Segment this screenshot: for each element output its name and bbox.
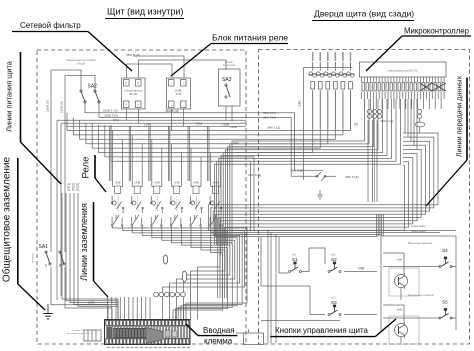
wire: S3 loop (261, 237, 377, 315)
svg-text:Переключатель сетевой: Переключатель сетевой (66, 58, 96, 62)
svg-text:+24В: +24В (230, 125, 237, 129)
indicator driver column element 5 (338, 52, 347, 129)
label: S4 caption (408, 242, 433, 245)
callout: power supply lines (left) (5, 52, 62, 184)
label: S5 caption (408, 294, 435, 297)
svg-text:Микроконтроллер: Микроконтроллер (404, 27, 470, 36)
label: net names mid bus (126, 53, 237, 129)
button S5 (439, 300, 452, 320)
choke L2 (182, 271, 186, 282)
label PE (door) (354, 123, 358, 127)
relay K1 (111, 181, 124, 227)
relay K4 (170, 181, 183, 227)
svg-text:Щит (вид изнутри): Щит (вид изнутри) (107, 7, 183, 17)
ground symbol (cabinet earth) (44, 304, 53, 319)
svg-text:ЗВН Б (Д): ЗВН Б (Д) (165, 109, 179, 113)
label -24V (buttons) (357, 267, 365, 271)
svg-text:РЕ: РЕ (354, 123, 358, 127)
wire: Kn4 links (383, 253, 404, 300)
callout: common earth (left) (1, 156, 46, 310)
svg-text:-24В: -24В (357, 267, 365, 271)
wire: relay output staircase (113, 226, 247, 320)
svg-text:Общещитовое заземление: Общещитовое заземление (1, 156, 13, 282)
svg-text:Сетевой фильтр: Сетевой фильтр (20, 21, 81, 30)
svg-text:Линии питания щита: Линии питания щита (5, 60, 14, 132)
svg-text:ЗВН 5 (Д): ЗВН 5 (Д) (248, 173, 261, 177)
wire: ground lines from relays to terminal (62, 193, 118, 320)
svg-text:S2: S2 (331, 257, 337, 262)
svg-text:(РЕ1): (РЕ1) (67, 183, 71, 191)
svg-text:для подключения сети: для подключения сети (67, 333, 91, 335)
relay K5 (190, 181, 203, 227)
svg-text:+24В: +24В (173, 181, 179, 185)
relay K3 (151, 181, 164, 227)
label -24V (298, 101, 302, 108)
wire: PSU leads (133, 56, 184, 78)
label: SA1 caption (32, 253, 35, 263)
wire: microcontroller data lines to cabinet (214, 99, 417, 245)
svg-text:S1: S1 (292, 257, 298, 262)
label (PE) near terminal (88, 301, 94, 305)
svg-text:SA2: SA2 (88, 84, 98, 90)
button S3 (328, 296, 341, 316)
terminal block X1 (105, 320, 191, 348)
wire: terminal block feeders (108, 297, 151, 320)
label: gap crossing nets (233, 111, 393, 177)
svg-text:Линии заземления: Линии заземления (79, 203, 89, 281)
indicator driver column element 6 (346, 52, 355, 129)
ferrite beads on data lines (367, 109, 425, 202)
svg-text:Кн4: Кн4 (397, 258, 402, 262)
label: door wires (411, 225, 426, 233)
svg-text:Вводная: Вводная (203, 326, 235, 335)
relay K6 (209, 181, 222, 227)
svg-text:ЗВН 4 (Д): ЗВН 4 (Д) (380, 119, 393, 123)
label: mains switch caption (66, 58, 96, 66)
svg-text:+24В: +24В (193, 181, 199, 185)
svg-text:ЗВН 1 (Д): ЗВН 1 (Д) (267, 125, 280, 129)
svg-text:ЗВН 5 (Д): ЗВН 5 (Д) (290, 169, 303, 173)
wire: filter top leads (127, 60, 227, 78)
panel border: door (right dashed box) (259, 50, 470, 345)
wire: button circuit lines from cabinet to door (268, 231, 276, 344)
svg-text:Дверца щита (вид сзади): Дверца щита (вид сзади) (314, 9, 414, 19)
wire: door bus to buttons box (377, 214, 384, 236)
svg-text:Кнопки управления щита: Кнопки управления щита (275, 326, 369, 335)
wire: -24V rail of resistor column (304, 62, 353, 180)
indicator driver column element 4 (331, 52, 340, 129)
callout: data lines (right) (426, 76, 467, 206)
node: PE labels (67, 183, 80, 191)
PE sub-terminal (84, 330, 101, 341)
wire: filter/PSU bottom leads (127, 106, 233, 131)
svg-text:(РЕ): (РЕ) (113, 118, 119, 122)
svg-text:(РЕ2): (РЕ2) (71, 183, 75, 191)
svg-text:+24В: +24В (222, 122, 229, 126)
relay power supply unit (167, 78, 191, 109)
svg-text:+24В: +24В (115, 181, 121, 185)
title: cabinet inside view (105, 7, 184, 19)
label: SA3 caption (223, 61, 236, 67)
indicator driver column element 2 (316, 52, 325, 129)
transistor Kn4 (389, 258, 419, 297)
wire: mains L feeder (51, 70, 81, 90)
svg-text:Кн1: Кн1 (292, 253, 297, 257)
callout: relays (81, 155, 107, 192)
panel border: cabinet (left dashed box) (37, 50, 246, 344)
switch SA1 (45, 251, 65, 267)
svg-text:общий: общий (77, 62, 86, 66)
junction: wire ferrules above terminal (154, 292, 186, 297)
svg-text:Блок питания реле: Блок питания реле (212, 33, 288, 43)
label SA2 (88, 84, 98, 90)
label SA3 (222, 77, 232, 83)
svg-text:ФС-4М: ФС-4М (129, 93, 137, 96)
network filter FS-4M (122, 78, 146, 109)
svg-text:плата контроллера МК7.3С: плата контроллера МК7.3С (387, 70, 418, 73)
svg-text:линия связи: линия связи (411, 230, 426, 233)
wire: Kn5 links (383, 305, 404, 343)
svg-text:вкл/откл: вкл/откл (32, 253, 35, 263)
svg-text:линия связи: линия связи (411, 225, 426, 228)
button S4 (439, 248, 452, 268)
microcontroller pin headers (362, 77, 447, 109)
label: SA2 output nets (103, 109, 119, 123)
svg-text:+24В: +24В (154, 181, 160, 185)
callout: cabinet control buttons (270, 319, 396, 337)
microcontroller board U1 (360, 62, 447, 77)
button S1 (289, 253, 302, 273)
svg-text:Клемма Х1: Клемма Х1 (72, 330, 84, 332)
svg-text:ЗВН 5 (Д'): ЗВН 5 (Д') (345, 175, 359, 179)
svg-text:220В Т (Л): 220В Т (Л) (103, 109, 117, 113)
svg-text:-24В: -24В (298, 101, 302, 108)
wire: S4 rail (383, 266, 456, 268)
svg-text:220В (Л): 220В (Л) (46, 100, 50, 112)
svg-text:+24В: +24В (213, 181, 219, 185)
door button interface box (381, 236, 456, 330)
choke L1 (163, 255, 167, 264)
svg-text:+24В: +24В (144, 122, 151, 126)
svg-text:Линии передачи данных: Линии передачи данных (455, 76, 464, 158)
svg-text:SA3: SA3 (222, 77, 232, 83)
svg-text:S4: S4 (442, 248, 448, 253)
callout: earth lines (79, 202, 108, 297)
svg-text:(РЕ): (РЕ) (196, 122, 202, 126)
wire: 220V T(N) line (99, 103, 309, 176)
svg-text:ЗВН Б (Д): ЗВН Б (Д) (126, 53, 140, 57)
cable duct between cabinet and door (236, 329, 264, 345)
svg-text:220В Т(Н): 220В Т(Н) (104, 114, 118, 118)
label 220V lines (vertical) (46, 100, 64, 113)
callout: input terminal (186, 324, 237, 346)
svg-text:(РЕ3): (РЕ3) (76, 183, 80, 191)
svg-text:включения: включения (223, 64, 236, 67)
svg-text:220В (Н): 220В (Н) (60, 101, 64, 113)
svg-text:S5: S5 (442, 300, 448, 305)
svg-text:(РЕ): (РЕ) (233, 141, 239, 145)
svg-text:Включение подсветки: Включение подсветки (408, 242, 433, 245)
indicator driver column element 3 (323, 52, 332, 129)
svg-text:ЗВН Т(Н): ЗВН Т(Н) (263, 115, 276, 119)
indicator driver column element 1 (308, 52, 317, 129)
title: door back view (312, 9, 414, 21)
wire: +24V distribution rail (66, 122, 246, 126)
svg-text:+24В: +24В (134, 181, 140, 185)
svg-text:Н: Н (137, 82, 139, 85)
svg-text:клемма: клемма (204, 337, 233, 346)
switch SA2 (80, 90, 100, 103)
switch SA3 box (219, 69, 241, 106)
callout: relay PSU (171, 33, 288, 77)
transistor stage Kl5 (290, 169, 359, 200)
svg-text:(РЕ): (РЕ) (88, 301, 94, 305)
transistor Kn5 (389, 308, 419, 345)
wire: SA1 feeders (51, 70, 112, 320)
svg-text:Кн3: Кн3 (331, 296, 336, 300)
wire: S1-S2 loop (279, 237, 377, 273)
svg-text:Реле: Реле (81, 157, 92, 179)
svg-text:Кн2: Кн2 (331, 253, 336, 257)
svg-text:Выключение подсветки: Выключение подсветки (408, 294, 435, 297)
label: terminal caption (67, 330, 91, 335)
wire: mains N feeder (65, 76, 95, 90)
wire: nested bus rails to door drivers (67, 92, 350, 231)
wire: PE and +24V top rails (57, 120, 246, 300)
callout: microcontroller (366, 27, 471, 72)
relay K2 (131, 181, 144, 227)
wire: 24V and data trunk rails across panels (209, 133, 457, 298)
button S2 (328, 253, 341, 273)
label SA1 (39, 244, 49, 250)
wire: 220V T(L) line (85, 103, 309, 170)
svg-text:Кн5: Кн5 (397, 308, 402, 312)
wire: bus drops to relay coils (110, 126, 221, 181)
svg-text:24 В: 24 В (176, 92, 182, 96)
callout: network filter (12, 21, 132, 71)
wire: S5 rail (383, 317, 456, 319)
svg-text:Н: Н (137, 104, 139, 107)
wire: S3 loop bottom edge (261, 319, 340, 321)
svg-text:SA1: SA1 (39, 244, 49, 250)
svg-text:S3: S3 (331, 300, 337, 305)
